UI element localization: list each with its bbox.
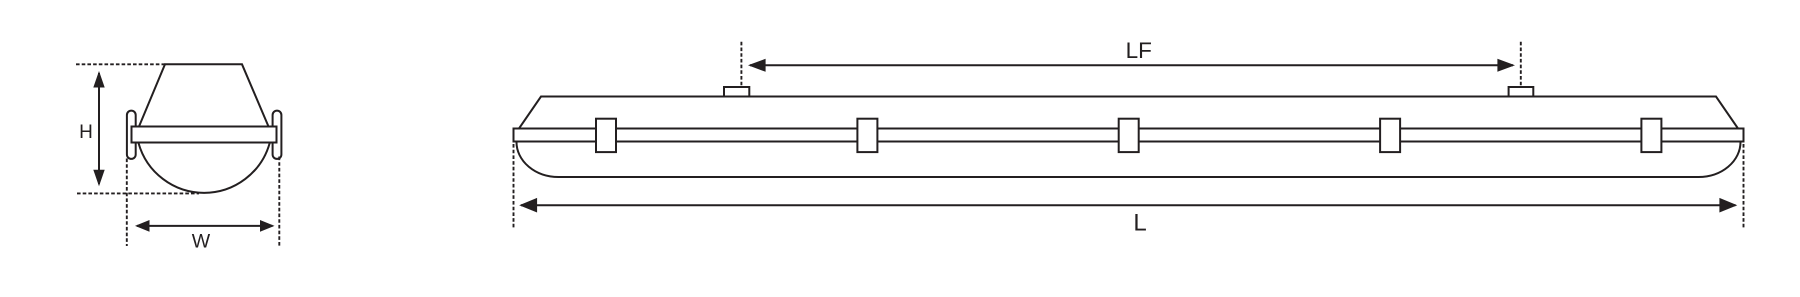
- mounting band (cross-section): [132, 127, 277, 143]
- fixture mounting band: [514, 129, 1744, 142]
- left mounting bracket: [724, 87, 749, 97]
- L dimension arrow: [519, 198, 1737, 213]
- right bracket dashed line: [1520, 42, 1522, 87]
- fixture top edge and chamfers: [519, 97, 1738, 129]
- right clip (cross-section): [273, 111, 282, 159]
- L left dashed line: [513, 144, 515, 228]
- clip 5 (side view): [1641, 119, 1661, 152]
- svg-text:W: W: [192, 231, 211, 253]
- clip 3 (side view): [1119, 119, 1139, 152]
- clip 1 (side view): [596, 119, 616, 152]
- W dimension arrow: [135, 220, 275, 232]
- clip 4 (side view): [1380, 119, 1400, 152]
- cross-section diffuser arc: [139, 143, 270, 193]
- cross-section body trapezoid: [139, 64, 269, 126]
- H dimension arrow: [93, 71, 104, 186]
- clip 2 (side view): [857, 119, 877, 152]
- W left dashed line: [126, 159, 128, 247]
- bottom extent dashed line: [77, 192, 199, 194]
- svg-text:LF: LF: [1126, 38, 1152, 63]
- L right dashed line: [1743, 144, 1745, 228]
- svg-text:L: L: [1133, 210, 1146, 237]
- left bracket dashed line: [740, 42, 742, 87]
- left clip (cross-section): [127, 111, 136, 159]
- right mounting bracket: [1509, 87, 1534, 97]
- LF dimension arrow: [748, 59, 1515, 72]
- fixture diffuser outline: [517, 142, 1741, 177]
- svg-text:H: H: [79, 122, 93, 143]
- top extent dashed line: [76, 63, 166, 65]
- W right dashed line: [278, 157, 280, 247]
